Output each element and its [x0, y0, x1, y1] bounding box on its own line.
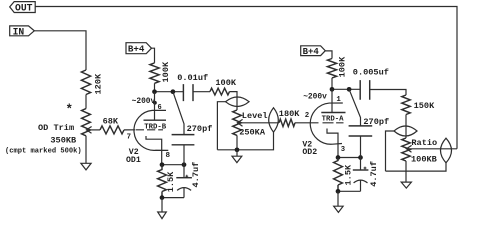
svg-text:180K: 180K: [279, 109, 300, 119]
ground (Ratio): [401, 182, 411, 188]
capacitor 4.7uf (stage 1): [176, 162, 201, 198]
wire OUT to right edge: [35, 7, 457, 149]
junction dot cathode 2b: [358, 155, 363, 160]
wire wiper to 68K: [86, 129, 100, 131]
junction dot 270pf branch 2: [347, 87, 352, 92]
svg-text:B+4: B+4: [303, 47, 320, 57]
capacitor 0.01uf: [177, 73, 208, 101]
svg-text:3: 3: [341, 146, 345, 154]
svg-text:1.5K: 1.5K: [166, 171, 176, 192]
svg-text:2: 2: [305, 112, 309, 120]
wire Level wiper to 180K: [237, 122, 279, 124]
potentiometer OD Trim 350KB: [5, 109, 92, 156]
wire 100K to plate node: [154, 83, 156, 91]
wire to ground (stage 1): [161, 198, 163, 212]
wire Level ground stub: [236, 150, 238, 156]
svg-text:350KB: 350KB: [50, 136, 76, 146]
triode grid dashed (stage 2): [323, 122, 344, 124]
triode plate bar (stage 2): [321, 112, 345, 114]
wire 150K to Ratio: [405, 115, 407, 139]
svg-text:OD Trim: OD Trim: [38, 123, 74, 133]
wire IN to 120K: [34, 31, 86, 70]
capacitor 0.005uf: [353, 68, 389, 100]
wire 100K to Level pot: [230, 92, 238, 110]
svg-text:Level: Level: [242, 111, 268, 121]
svg-text:100K: 100K: [161, 61, 171, 82]
svg-text:150K: 150K: [414, 101, 435, 111]
svg-text:68K: 68K: [103, 117, 119, 127]
net tag IN: [10, 26, 35, 38]
triode cathode (stage 2): [327, 129, 338, 158]
resistor 120K: [81, 70, 103, 95]
wire 68K to grid pin 7: [124, 129, 135, 131]
junction dot Level bottom: [235, 147, 240, 152]
potentiometer Level 250KA: [233, 110, 268, 137]
svg-text:1: 1: [336, 96, 341, 104]
svg-text:(cmpt marked 500k): (cmpt marked 500k): [5, 148, 82, 156]
voltage dot (stage 1): [153, 101, 157, 105]
wire 0.005uf to 150K: [370, 90, 406, 96]
wire 120K to OD Trim: [85, 95, 87, 109]
svg-text:~200v: ~200v: [303, 93, 327, 102]
svg-text:4.7uf: 4.7uf: [369, 161, 379, 187]
wire cathode junction 2: [338, 157, 361, 159]
svg-text:6: 6: [158, 104, 162, 112]
svg-text:250KA: 250KA: [239, 127, 266, 137]
triode plate lead (pin 6): [154, 92, 156, 121]
wire plate node 2: [332, 88, 360, 90]
resistor 180K: [279, 109, 300, 126]
wire Ratio pot to ground: [405, 161, 407, 182]
junction dot plate node 2: [330, 87, 335, 92]
potentiometer Ratio 100KB: [402, 138, 437, 165]
wire to ground (stage 2): [337, 191, 339, 206]
svg-text:*: *: [66, 103, 74, 117]
svg-text:Ratio: Ratio: [411, 138, 437, 148]
svg-text:100K: 100K: [215, 78, 236, 88]
resistor 100K (stage 1 plate load): [150, 61, 171, 83]
svg-text:100KB: 100KB: [411, 155, 437, 165]
ground (stage 1): [158, 212, 167, 219]
svg-text:4.7uf: 4.7uf: [191, 162, 201, 188]
svg-text:OD2: OD2: [302, 148, 317, 157]
junction dot plate node 1: [152, 89, 157, 94]
resistor 100K (mid): [210, 78, 237, 95]
triode cathode: [146, 136, 162, 165]
shield lens (Ratio wiper): [441, 138, 452, 163]
svg-text:1.5K: 1.5K: [344, 164, 354, 185]
triode U1 envelope: [134, 110, 168, 150]
svg-text:OUT: OUT: [15, 2, 33, 13]
ground rail (Level): [217, 132, 273, 150]
shield stub + rail (Ratio): [386, 163, 447, 171]
ground (stage 2): [334, 206, 343, 212]
resistor 150K: [402, 95, 435, 115]
wire B+4 to 100K: [152, 48, 155, 63]
wire Ratio wiper to OUT: [406, 148, 457, 150]
junction dot bottom 1: [160, 195, 165, 200]
wire Level pot to rail: [236, 135, 238, 149]
svg-text:0.005uf: 0.005uf: [353, 68, 389, 78]
resistor 1.5K (stage 1): [158, 165, 177, 198]
wire B+4 to 100K (stage 2): [325, 51, 332, 59]
svg-text:~200v: ~200v: [132, 97, 156, 106]
junction dot cathode 1b: [182, 162, 187, 167]
resistor 1.5K (stage 2): [334, 158, 354, 192]
svg-text:7: 7: [127, 134, 131, 142]
capacitor 270pf (stage 1): [172, 92, 213, 165]
wire cathode junction 1: [162, 164, 184, 166]
svg-text:B+4: B+4: [128, 44, 145, 55]
svg-text:OD1: OD1: [126, 156, 141, 165]
capacitor 4.7uf (stage 2): [353, 158, 379, 192]
wire 100K to plate node 2: [331, 78, 333, 89]
svg-text:100K: 100K: [338, 56, 348, 77]
resistor 68K: [100, 117, 124, 134]
shield lens (Ratio top): [394, 126, 417, 136]
wire OD Trim to ground: [85, 136, 87, 164]
wire 0.01uf to 100K: [193, 91, 210, 93]
triode plate lead (pin 1): [331, 89, 333, 112]
wire bottom junction 2: [338, 190, 361, 192]
svg-text:270pf: 270pf: [363, 117, 389, 127]
svg-text:120K: 120K: [94, 73, 104, 94]
triode grid (dashed): [136, 129, 163, 131]
wire plate node: [155, 91, 184, 93]
wire 180K to grid pin 2: [295, 122, 319, 124]
wire bottom junction 1: [162, 197, 184, 199]
shield lens (Level top): [226, 97, 250, 107]
triode plate bar: [144, 119, 167, 121]
power tag B+4 (stage 1): [126, 43, 152, 55]
svg-text:8: 8: [166, 152, 171, 160]
shield stub (Level top): [217, 102, 225, 150]
junction dot 270pf branch 1: [171, 89, 176, 94]
svg-text:0.01uf: 0.01uf: [177, 73, 208, 83]
svg-text:270pf: 270pf: [187, 124, 213, 134]
capacitor 270pf (stage 2): [349, 89, 390, 157]
ground (Level): [232, 156, 242, 162]
shield stub (Ratio top): [386, 131, 395, 171]
power tag B+4 (stage 2): [301, 46, 326, 57]
svg-text:IN: IN: [13, 26, 25, 37]
resistor 100K (stage 2 plate load): [327, 56, 347, 78]
junction dot cathode 1a: [160, 162, 165, 167]
ground (OD Trim): [81, 163, 91, 170]
junction dot bottom 2: [336, 189, 341, 194]
net tag OUT: [10, 2, 36, 14]
junction dot cathode 2a: [336, 155, 341, 160]
triode U2 envelope: [310, 103, 343, 144]
shield lens (Level wiper): [269, 108, 279, 132]
